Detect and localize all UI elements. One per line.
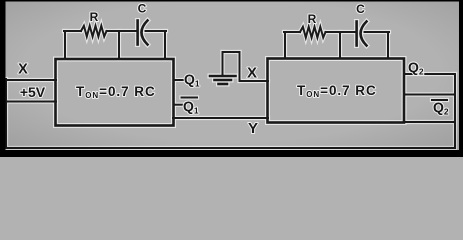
black frame bottom	[0, 150, 463, 157]
halo layer	[5, 26, 455, 148]
ink layer	[5, 26, 455, 148]
black frame right	[459, 0, 463, 157]
black frame left	[0, 0, 6, 157]
vignette	[0, 0, 463, 157]
black frame top	[0, 0, 463, 2]
